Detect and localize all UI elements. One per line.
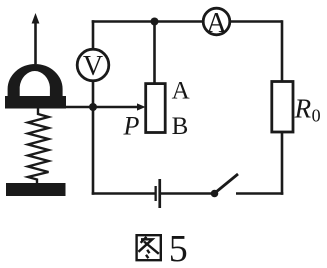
wire bottom left segment — [92, 192, 155, 195]
node junction top (pot A lead) — [151, 18, 159, 26]
potentiometer slider arrowhead P — [137, 103, 146, 110]
force arrow shaft — [34, 22, 37, 65]
svg-text:A: A — [206, 8, 227, 39]
sensor top plate — [5, 96, 66, 109]
switch pivot node — [211, 190, 219, 198]
svg-text:R: R — [294, 93, 312, 123]
wire bottom right segment — [236, 192, 283, 195]
svg-text:B: B — [172, 113, 189, 140]
svg-text:0: 0 — [312, 106, 321, 126]
switch lever — [213, 174, 238, 195]
wire left vertical (voltmeter branch) — [92, 20, 95, 50]
sensor dome arch — [8, 64, 63, 98]
wire pot top lead — [153, 22, 156, 85]
battery short plate (negative) — [155, 186, 157, 201]
spring — [28, 109, 49, 184]
sensor base plate — [6, 183, 66, 196]
wire battery to switch — [161, 192, 215, 195]
node junction left (slider tap) — [89, 103, 97, 111]
svg-text:P: P — [123, 112, 140, 141]
wire slider to left branch — [64, 106, 139, 109]
wire right vertical bottom — [281, 131, 284, 195]
resistor R0 box — [272, 82, 293, 133]
ammeter U-A — [203, 8, 230, 39]
wire top horizontal — [92, 20, 282, 23]
force arrowhead — [32, 13, 40, 24]
voltmeter U-V — [77, 49, 109, 82]
svg-text:V: V — [83, 51, 103, 82]
svg-text:A: A — [172, 77, 190, 104]
caption character tu (figure) — [135, 234, 162, 260]
wire left vertical below voltmeter — [92, 80, 95, 195]
potentiometer box — [146, 84, 166, 133]
wire right vertical top — [281, 20, 284, 82]
svg-text:5: 5 — [169, 228, 188, 268]
battery long plate (positive) — [158, 179, 161, 208]
